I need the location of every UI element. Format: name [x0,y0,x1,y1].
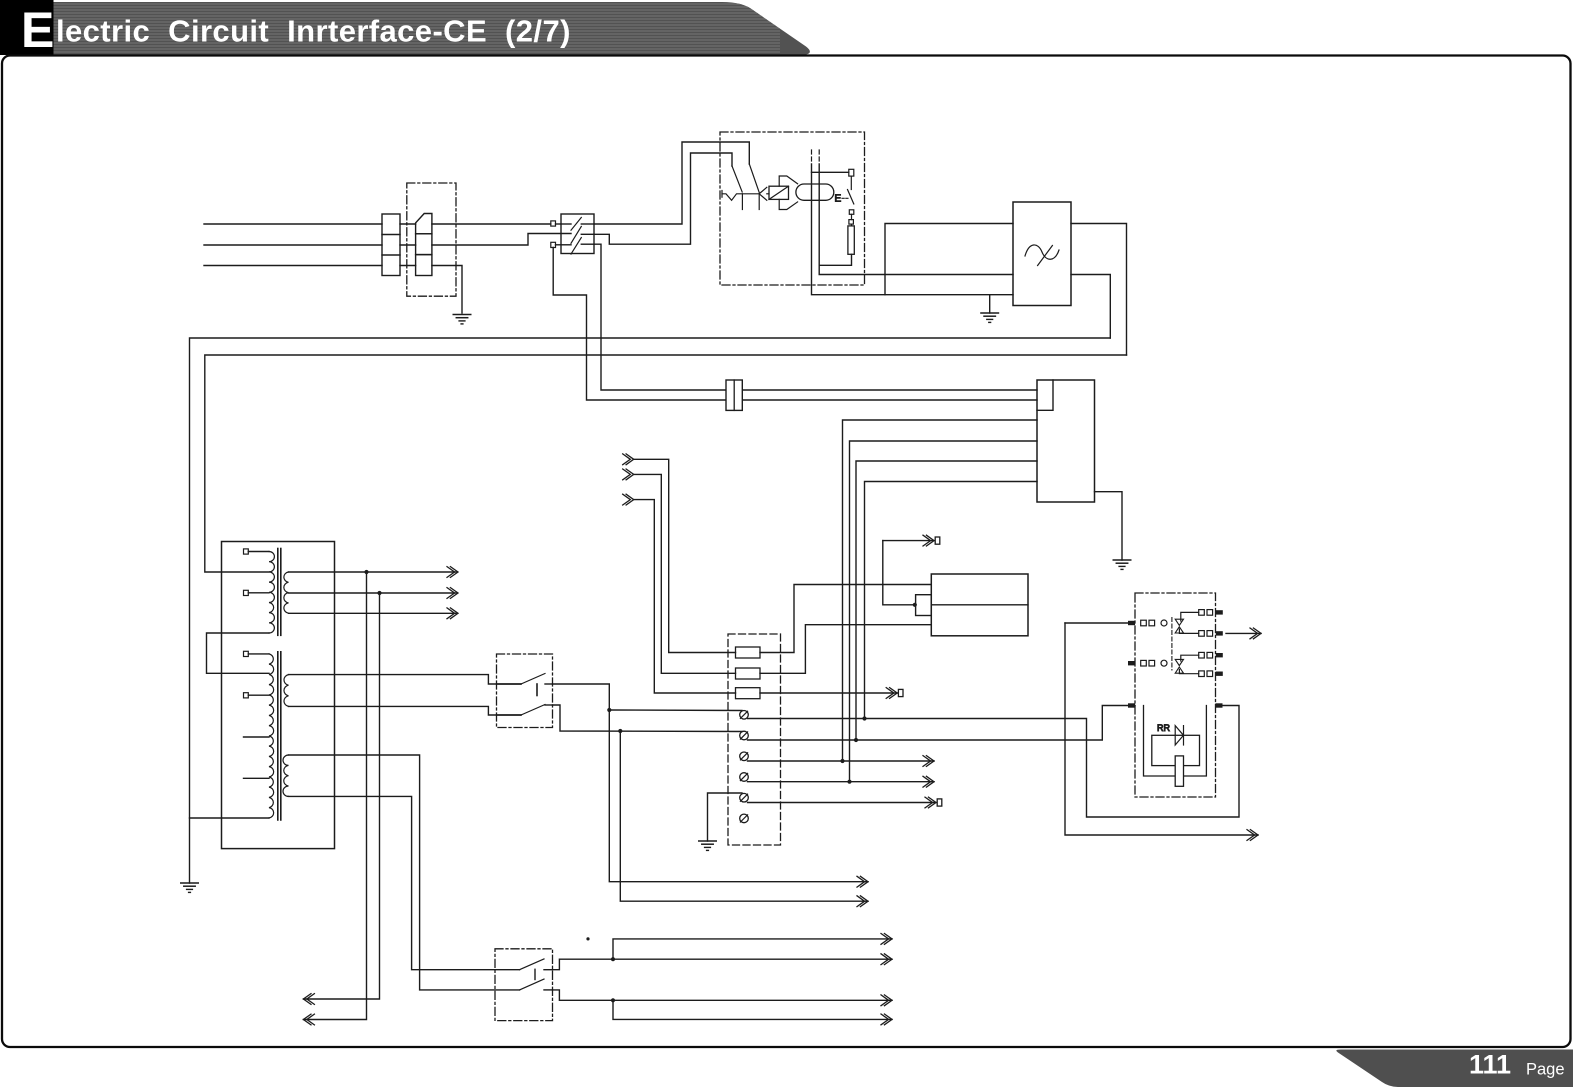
junction dot S2-2 branch [618,729,622,733]
terminal arrow T1 [883,535,940,546]
wire CN1 mating L1 [400,223,416,225]
wire secondary B1 top to S2 [289,675,522,684]
wire TB4 to arrow [748,781,935,783]
relay out squares row1a [1199,610,1213,616]
switch S2 pole1 contacts [497,674,553,685]
relay row1 pin bar left [1128,621,1135,625]
wire primary A-B series link [207,633,270,673]
switch S1 pin square 2 [551,242,561,247]
svg-text:E: E [835,194,842,205]
wire breaker to E-switch [812,171,849,173]
breaker operating capsule [796,184,834,200]
wire JB pin2 to terminal row [850,441,1038,782]
wire JB pin3 to terminal row [856,461,1037,740]
wire T1 to control box pin [883,541,916,605]
wire CN1 mating L2 [400,244,416,246]
transformer core B [278,652,281,820]
svg-text:E: E [21,2,54,58]
svg-text:lectric Circuit Inrterface-C: lectric Circuit Inrterface-CE (2/7) [56,14,571,49]
transformer pin square 3 [244,651,270,656]
wire long line B to transformer tap [205,355,1127,572]
svg-text:Page: Page [1526,1061,1565,1079]
screw terminal TB6 [740,814,749,823]
wire relay row1 branch up [1181,612,1199,621]
fuse F2 [736,668,761,679]
wire S1 pole2 to breaker pole A [594,153,732,244]
arrow output S3-1a [881,934,892,945]
arrow output relay loop [1247,830,1258,841]
transformer pin square 2 [244,590,270,595]
wire fuse F to breaker output 2 [819,254,851,265]
screw terminal TB5 [740,793,749,802]
switch S1 pole3 contacts [561,238,594,255]
relay coil pin bar right [1216,703,1223,707]
wire arrow to fuse F1 [634,459,736,652]
screw terminal TB2 [740,731,749,740]
junction dot S2-1 to TB1 [607,708,611,712]
breaker pole B fixed contact [758,194,760,210]
terminal arrow T3 [925,797,942,808]
transformer secondary B1 winding [284,675,289,707]
relay out pin bar row1a [1216,610,1223,614]
fuse F body [848,226,854,254]
relay out pin bar row1b [1216,631,1223,635]
wire S3-1 branch up [613,939,892,959]
transformer primary A winding [269,552,274,634]
connector CN1 male half [382,214,400,276]
wire arrow to fuse F2 [634,474,736,673]
control box CB2 [931,574,1028,636]
wire fuse F3 to terminal arrow T2 [760,692,897,694]
switch S1 body [561,214,594,254]
connector CN1 female half [416,214,432,276]
wire TB3 to arrow [748,760,935,762]
arrow output TB3 [923,756,934,767]
switch S1 pole2 contacts [571,226,594,243]
wire supply output 1 (to line B) [1071,224,1127,356]
wire long line A to transformer ground leg [190,338,1111,883]
junction dot TB1/JB4 [862,716,866,720]
wire S3 pole1 output [553,959,893,970]
switch S3 pole1 contacts [520,959,553,970]
breaker pole B blade [749,164,759,193]
relay diode [1175,726,1183,745]
wire TB5 to terminal arrow T3 [748,802,937,804]
relay out squares row2a [1199,652,1213,658]
wire CN1 mating L3 [400,265,416,267]
switch S1 pin square 1 [551,221,561,226]
transformer secondary A winding [284,572,289,613]
relay coil pin bar left [1128,703,1135,707]
wire L3 to ground [432,266,462,314]
wire AC input L3 [204,265,382,267]
wire relay row1b to arrow [1226,632,1261,634]
breaker trip linkage bottom [779,199,797,209]
relay out pin bar row2b [1216,672,1223,676]
breaker trip arrowhead [759,187,769,200]
junction dot secondary A tap2 [377,591,381,595]
breaker pole A fixed contact [741,194,743,210]
relay coil frame [1144,706,1207,777]
relay out squares row2b [1199,671,1213,677]
fuse F terminal square [849,220,854,226]
switch E terminal square top [849,169,854,176]
relay out squares row1b [1199,631,1213,637]
stray dot [586,937,589,940]
switch S2 link bar [536,684,538,696]
arrow input F1 [623,454,634,465]
wire breaker output 1 to power supply [812,164,1014,295]
wire JB pin4 to terminal row [865,482,1038,719]
control box pin block [916,595,932,616]
junction dot TB2/JB3 [854,738,858,742]
wire relay row1 input [1065,622,1128,624]
ground symbol (terminal strip) [699,841,716,850]
transformer TR box [222,542,335,849]
relay row1 mating triangles [1175,619,1183,633]
wire secondary A tap2 [289,592,457,594]
transformer pin square 1 [244,549,270,554]
arrow secondary A tap2 [447,588,458,599]
terminal strip dashed box [728,634,781,845]
arrow left output A2 [303,994,314,1005]
transformer core A [278,549,281,636]
wire relay row1 branch down [1179,629,1198,633]
ground symbol (power supply) [981,313,998,322]
switch S3 pole2 contacts [520,979,553,990]
wire supply output 2 (to line A) [1071,275,1110,339]
wire secondary A tap1 [289,571,457,573]
wire S1 pin2 to line filter (lower) [553,248,1037,401]
wire S1 pole3 out to line filter (upper) [594,244,1037,390]
arrow secondary A tap1 [447,567,458,578]
label E [835,194,849,205]
relay row2 contact squares [1141,660,1155,666]
breaker output dashed stub 1 [811,150,813,164]
wire secondary B2 top to S3 [289,755,520,990]
ground symbol (junction box) [1113,560,1130,569]
arrow output S3-1b [881,954,892,965]
breaker output dashed stub 2 [818,150,820,164]
arrow output S2-2 [857,896,868,907]
arrow left output A1 [303,1014,314,1025]
wire L1 to switch S1 pin 1 [432,223,551,225]
arrow output S2-1 [857,876,868,887]
arrow output TB4 [923,776,934,787]
junction box JB [1037,380,1095,502]
switch S3 enclosure (dash-dot box) [495,949,553,1021]
wire primary B bottom to ground leg [190,817,270,819]
wire supply ac input jumper [885,224,1013,295]
wire AC input L1 [204,223,382,225]
switch S2 pole2 contacts [497,705,553,716]
power supply AC symbol [1025,245,1059,266]
transformer pin square 4 [244,693,270,698]
circuit breaker CB enclosure (dash-dot box) [720,132,865,285]
wire JB pin1 to terminal row [843,420,1038,761]
relay mating link (dashed) [1171,618,1173,671]
ground symbol (transformer leg) [181,883,198,892]
switch E terminal square bottom [849,210,854,220]
arrow input F2 [623,469,634,480]
screw terminal TB4 [740,773,749,782]
wire S2-2 branch down [620,731,868,901]
wire AC input L2 [204,244,382,246]
breaker thermal element (zigzag) [722,191,759,201]
svg-text:111: 111 [1469,1050,1511,1080]
line filter FL [726,380,742,410]
junction dot TB4/JB2 [847,780,851,784]
transformer stub lead 1 [244,736,270,738]
wire relay row2 branch down [1179,670,1198,674]
page number banner [1336,1050,1573,1087]
title banner background [0,0,810,55]
relay row1 contact squares [1141,620,1155,626]
relay coil core [1175,756,1183,786]
wire secondary B2 bottom to S3 [289,796,520,969]
terminal arrow T2 [886,688,903,699]
wire breaker output 2 to power supply [819,164,1013,275]
wire S2 pole2 output [553,705,743,732]
wire fuse F2 to control box [760,625,931,674]
wire to terminal TB1 [609,709,742,712]
switch S1 pole1 contacts [561,218,594,231]
transformer secondary B2 winding [283,755,289,796]
screw terminal TB3 [740,752,749,761]
relay row2 pin bar left [1128,661,1135,665]
wire relay row1 loop to arrow [1065,623,1258,835]
relay row1 contact circle [1161,620,1167,626]
switch S3 link bar [534,969,536,979]
ground symbol (CN1 shield) [453,315,470,324]
wire secondary A tap1 branch down [303,572,366,1020]
arrow output S3-2b [881,1014,892,1025]
wire arrow to fuse F3 [634,500,736,693]
transformer stub lead 2 [244,777,270,779]
wire secondary B1 bottom to S2 [289,706,522,715]
breaker magnetic coil [769,186,789,199]
wire TB5 to ground [708,793,743,841]
junction dot S3-1 [611,957,615,961]
arrow secondary A tap3 [447,608,458,619]
fuse F3 [736,688,761,699]
wire relay row2 branch up [1181,655,1199,661]
wire S3-2 branch down [613,1000,892,1019]
ground stub at power supply [989,295,991,313]
junction dot TB3/JB1 [840,759,844,763]
relay out pin bar row2a [1216,653,1223,657]
arrow output S3-2a [881,995,892,1006]
junction dot at control box pin [913,603,917,607]
wire secondary A tap2 branch down [303,593,379,999]
fuse F1 [736,647,761,658]
relay row2 contact circle [1161,660,1167,666]
title text [21,2,571,58]
label RR [1157,723,1170,733]
relay coil inner box [1152,735,1200,765]
wire TB2 to relay pin left [748,706,1136,741]
svg-text:RR: RR [1157,723,1170,733]
wire JB to ground [1095,492,1123,560]
wire L2 to switch S1 pole 2 [432,234,571,246]
relay K enclosure (dash-dot box) [1135,593,1216,797]
wire TB1 to relay pin right [748,706,1240,818]
breaker trip linkage top [779,176,797,186]
arrow input F3 [623,494,634,505]
wire fuse F1 to control box [760,585,931,653]
wire S2 pole1 output [553,684,869,882]
junction dot secondary A tap1 [364,570,368,574]
connector CN1 enclosure (dash-dot box) [407,183,456,296]
wire S1 pole1 to breaker pole B [594,142,749,224]
arrow output relay row1b [1250,628,1261,639]
power supply PS box [1013,202,1071,306]
breaker pole A blade [732,166,742,192]
transformer primary B winding [269,654,274,818]
junction dot S3-2 [611,998,615,1002]
wire S3 pole2 output [553,990,893,1000]
wire secondary A tap3 [289,612,457,614]
screw terminal TB1 [740,711,749,720]
relay row2 mating triangles [1175,659,1183,673]
switch E blade [848,176,854,204]
switch S2 enclosure (dash-dot box) [497,654,553,728]
